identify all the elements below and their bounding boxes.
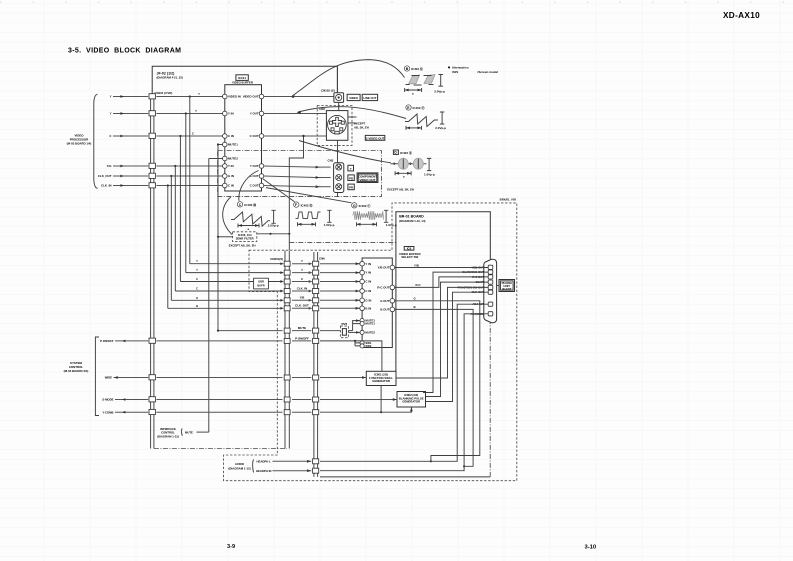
dashed box s-video section	[317, 106, 352, 146]
box IC103 filter (dashed)	[233, 232, 257, 242]
svg-text:IC402 Ⓣ: IC402 Ⓣ	[359, 203, 371, 208]
wire Y out row	[395, 267, 489, 269]
svg-text:SW2: SW2	[365, 344, 372, 348]
svg-text:SELECT SW: SELECT SW	[401, 255, 418, 259]
svg-text:1.0Vp-p: 1.0Vp-p	[324, 223, 335, 227]
bus vertical MUTE	[208, 159, 210, 433]
label box Y	[348, 165, 354, 171]
jack VIDEO out	[334, 93, 344, 103]
svg-text:PR: PR	[349, 186, 353, 190]
waveform fig G	[352, 203, 397, 228]
pin BLK/T	[488, 280, 493, 284]
label box PB	[348, 175, 354, 181]
svg-text:GENERATOR: GENERATOR	[372, 379, 390, 383]
svg-text:Y: Y	[196, 268, 198, 272]
waveform fig D (IC402 c out)	[391, 150, 436, 179]
wires: cable to IC101 video buffer	[156, 96, 222, 98]
wire s-video right stubs	[348, 116, 357, 118]
svg-text:(B-02)T: (B-02)T	[502, 287, 512, 291]
svg-text:C IN: C IN	[228, 134, 234, 138]
junction dots and drop wires to lower section	[189, 95, 191, 97]
svg-text:P-ON/OFF: P-ON/OFF	[295, 336, 309, 340]
wire gnd bottom	[320, 476, 490, 478]
svg-text:GBR: GBR	[258, 280, 264, 284]
svg-text:B: B	[196, 304, 198, 308]
label box to CRT unit	[499, 280, 515, 292]
svg-text:EXCEPT AB, SK, EH: EXCEPT AB, SK, EH	[229, 243, 256, 247]
pin FUNCTION SW OUT	[488, 285, 493, 289]
svg-text:Y OUT: Y OUT	[250, 112, 259, 116]
svg-text:VIDEO IN: VIDEO IN	[228, 95, 241, 99]
svg-text:IC402 Ⓡ: IC402 Ⓡ	[301, 202, 313, 207]
svg-text:IC101: IC101	[238, 76, 246, 80]
svg-text:XD-AX10: XD-AX10	[723, 11, 760, 20]
svg-text:CN201(S): CN201(S)	[270, 257, 283, 261]
pin R-C OUT	[488, 275, 493, 279]
wire R-C out	[395, 277, 489, 288]
svg-text:CLK_OUT: CLK_OUT	[295, 304, 309, 308]
wire C out to s-video	[264, 135, 327, 137]
svg-text:✱ Attenuation: ✱ Attenuation	[448, 65, 469, 69]
waveform fig E (IC402 y out)	[405, 105, 446, 130]
svg-text:HEADPH L: HEADPH L	[257, 460, 272, 464]
IC6 right pins	[390, 265, 395, 270]
IC6 mute/sw pins	[360, 319, 364, 323]
leader arrow to fig E	[298, 107, 406, 119]
wire filter left	[218, 236, 233, 238]
svg-text:CN6: CN6	[319, 257, 325, 261]
svg-text:IC402 Ⓜ: IC402 Ⓜ	[244, 202, 256, 207]
svg-text:2.0Vp-p: 2.0Vp-p	[435, 126, 446, 130]
svg-text:S VIDEO OUT: S VIDEO OUT	[366, 136, 385, 140]
svg-text:G IN: G IN	[365, 298, 371, 302]
wire blk out	[426, 292, 489, 401]
wire VIDEO out to jack	[264, 96, 334, 98]
svg-text:Y IN: Y IN	[228, 112, 234, 116]
label box PR	[348, 184, 354, 190]
bracket: video processor source	[94, 94, 98, 188]
board BR-01 dashed boundary	[224, 203, 517, 481]
wire jack to s-video	[338, 102, 340, 110]
svg-text:MUTE1: MUTE1	[228, 143, 238, 147]
svg-text:C: C	[196, 277, 198, 281]
leader to fig F	[263, 179, 295, 202]
block IC101 video buffer	[225, 85, 262, 191]
svg-text:WIDE: WIDE	[105, 376, 112, 380]
svg-text:Y/B: Y/B	[414, 263, 419, 267]
wire B out loop	[395, 309, 474, 466]
svg-text:S-MODE: S-MODE	[102, 398, 113, 402]
wire G out loop	[395, 301, 480, 462]
svg-text:1.0Vp-p: 1.0Vp-p	[386, 223, 397, 227]
connector S-video 4pin	[326, 111, 348, 141]
wire s-mode to IC802	[320, 399, 397, 401]
svg-text:3-5. VIDEO BLOCK DIAGRAM: 3-5. VIDEO BLOCK DIAGRAM	[68, 48, 181, 55]
wire blk/t	[426, 282, 489, 396]
waveform fig B (IC402 video out)	[404, 66, 445, 96]
label box S VIDEO OUT	[365, 135, 385, 140]
wire function sw out	[396, 287, 488, 378]
svg-text:C IN: C IN	[228, 184, 234, 188]
svg-text:Y IN: Y IN	[365, 262, 371, 266]
label box LINE OUT	[362, 94, 377, 100]
svg-text:Y IN: Y IN	[365, 271, 371, 275]
wire adj in	[320, 304, 488, 461]
wire wide to IC801	[320, 377, 366, 379]
svg-text:(DIAGRAM 1-12): (DIAGRAM 1-12)	[228, 466, 250, 470]
svg-text:Y: Y	[195, 109, 197, 113]
svg-text:C OUT: C OUT	[250, 184, 259, 188]
svg-text:VIDEO OUT: VIDEO OUT	[360, 178, 376, 182]
connector CN jack to unit	[484, 259, 497, 323]
svg-text:Y: Y	[350, 167, 352, 171]
svg-text:Y IN: Y IN	[228, 164, 234, 168]
pin ADJ IN/T	[488, 302, 493, 306]
label box COMPONENT VIDEO OUT	[357, 173, 378, 183]
svg-text:Y/B OUT: Y/B OUT	[378, 266, 390, 270]
IC101 label box	[236, 75, 248, 81]
svg-text:MUTE2: MUTE2	[228, 157, 238, 161]
generator box IC802	[397, 392, 426, 408]
svg-text:Y/B: Y/B	[300, 296, 305, 300]
svg-text:G OUT: G OUT	[380, 299, 389, 303]
svg-text:1.0Vp-p: 1.0Vp-p	[424, 173, 435, 177]
pin BLANKING OUT	[488, 270, 493, 274]
svg-text:F: F	[295, 203, 297, 207]
svg-text:Y OUT: Y OUT	[250, 164, 259, 168]
wire p-on/off to IC801	[355, 341, 382, 371]
svg-text:2.0Vp-p: 2.0Vp-p	[268, 224, 279, 228]
svg-text:IN/S: IN/S	[452, 70, 458, 74]
wire IC801 to row	[380, 386, 382, 413]
svg-text:IC402 Ⓢ: IC402 Ⓢ	[400, 150, 412, 155]
cable CN6 verticals	[313, 252, 315, 477]
svg-text:BRX/01_V05: BRX/01_V05	[500, 198, 517, 202]
pin BLK OUT	[488, 290, 493, 294]
svg-text:BR-01 BOARD: BR-01 BOARD	[399, 215, 424, 219]
dash-dot region component video	[218, 151, 382, 197]
dash-dot link	[289, 241, 396, 243]
svg-text:P-ON/OFF: P-ON/OFF	[100, 339, 114, 343]
svg-text:C: C	[196, 287, 198, 291]
wire MUTE1 stub	[218, 144, 223, 146]
svg-text:EXCEPT AB, SK, EH: EXCEPT AB, SK, EH	[387, 188, 414, 192]
svg-text:C IN: C IN	[365, 289, 371, 293]
svg-text:CN3: CN3	[328, 159, 334, 163]
svg-text:VIDEO: VIDEO	[349, 96, 359, 100]
wire p-on/off to sw pins	[320, 341, 360, 346]
svg-text:3-9: 3-9	[227, 544, 235, 550]
wire mute row to pins	[320, 330, 340, 332]
svg-text:VIDEO BUFFER: VIDEO BUFFER	[232, 81, 253, 85]
wire s-video to component bus	[337, 140, 339, 163]
svg-text:Y: Y	[196, 259, 198, 263]
svg-text:Y: Y	[198, 92, 200, 96]
bracket system control	[95, 337, 99, 416]
svg-text:CLK_IN: CLK_IN	[101, 184, 111, 188]
waveform fig F	[294, 202, 335, 227]
svg-text:Y-COMB: Y-COMB	[102, 410, 113, 414]
svg-text:HEADPH IN: HEADPH IN	[256, 469, 271, 473]
cable CN201 verticals	[284, 251, 286, 449]
pin ADJ(GND)	[488, 312, 493, 316]
IC module label box	[404, 247, 414, 251]
svg-text:IC6: IC6	[407, 247, 412, 251]
svg-text:BUFR: BUFR	[257, 284, 264, 288]
svg-text:B IN: B IN	[365, 306, 371, 310]
wire y-comb to IC802	[320, 407, 411, 412]
label box VIDEO	[347, 94, 360, 100]
arrowheads into cables	[280, 262, 284, 265]
wire blanking out	[423, 272, 488, 392]
wire riser to component section	[289, 136, 303, 250]
waveform fig C	[231, 202, 279, 231]
svg-text:3DNR FILTER: 3DNR FILTER	[236, 237, 254, 241]
svg-text:C OUT: C OUT	[250, 134, 259, 138]
jack component video 3pin	[334, 163, 344, 193]
svg-text:CLK_IN: CLK_IN	[297, 286, 307, 290]
inner frame BR-01	[396, 212, 490, 371]
svg-text:Y: Y	[301, 268, 303, 272]
svg-text:MUTE: MUTE	[298, 326, 306, 330]
row wires lower section	[292, 263, 311, 265]
svg-text:Y/G: Y/G	[107, 164, 113, 168]
pin Y(B) OUT	[488, 265, 493, 269]
svg-text:C IN: C IN	[365, 280, 371, 284]
svg-text:C: C	[192, 132, 194, 136]
svg-text:/Screen model: /Screen model	[478, 70, 499, 74]
leader to fig C	[239, 171, 259, 201]
wire jack top stub	[336, 66, 338, 93]
svg-text:(M-03 BOARD 3/4): (M-03 BOARD 3/4)	[64, 369, 89, 373]
svg-text:(DIAGRAM 1-13): (DIAGRAM 1-13)	[157, 434, 179, 438]
generator box IC801	[366, 371, 396, 385]
svg-text:RV6: RV6	[342, 322, 348, 326]
svg-text:G: G	[353, 204, 356, 208]
svg-text:CN101 (CVD): CN101 (CVD)	[155, 91, 173, 95]
wire Y out to s-video	[264, 113, 327, 115]
svg-text:GENERATOR: GENERATOR	[402, 400, 420, 404]
IC101 right pins	[259, 94, 264, 99]
svg-text:IC402 Ⓤ: IC402 Ⓤ	[411, 66, 423, 71]
svg-text:MUTE: MUTE	[185, 430, 193, 434]
cable CN6 boxes	[313, 261, 319, 266]
svg-text:G: G	[196, 296, 198, 300]
svg-text:2.0Vp-p: 2.0Vp-p	[434, 89, 445, 93]
IC101 left pins	[223, 94, 228, 99]
box GBR buffer	[254, 278, 269, 289]
svg-text:MUTE2: MUTE2	[365, 330, 375, 334]
cable: left flat cable verticals	[150, 94, 152, 449]
svg-text:AB, SK, EH: AB, SK, EH	[354, 126, 369, 130]
block IC6 video buffer select sw	[362, 258, 392, 348]
leader arc to filter	[223, 197, 232, 235]
svg-text:B: B	[414, 305, 416, 309]
board JF-02 outline	[152, 66, 337, 93]
svg-text:B OUT: B OUT	[380, 308, 389, 312]
leader to fig D	[299, 141, 391, 163]
cable connector boxes (left cable)	[149, 94, 155, 99]
svg-text:LINE OUT: LINE OUT	[363, 96, 376, 100]
svg-text:Y: Y	[110, 95, 112, 99]
svg-text:Y: Y	[110, 112, 112, 116]
svg-text:MUTE1: MUTE1	[365, 322, 375, 326]
svg-text:(DIAGRAM 1-10, 14): (DIAGRAM 1-10, 14)	[399, 219, 425, 223]
svg-text:IC402 Ⓥ: IC402 Ⓥ	[413, 105, 425, 110]
wire adj gnd	[320, 314, 488, 471]
svg-text:CN102 (S): CN102 (S)	[321, 88, 335, 92]
svg-text:(DIAGRAM 4-21, 22): (DIAGRAM 4-21, 22)	[157, 75, 183, 79]
IC6 left pins	[360, 261, 365, 266]
svg-text:3-10: 3-10	[585, 545, 597, 551]
wires component outputs	[264, 166, 316, 167]
svg-text:G IN: G IN	[228, 174, 234, 178]
wire filter right	[257, 233, 290, 235]
bus vertical to SW filter	[217, 145, 219, 331]
svg-text:PB: PB	[349, 176, 353, 180]
svg-text:VIDEO OUT: VIDEO OUT	[243, 95, 259, 99]
svg-text:Y: Y	[301, 259, 303, 263]
leader to fig G	[266, 188, 352, 203]
wire mute row start	[218, 330, 283, 332]
svg-text:R-C OUT: R-C OUT	[377, 286, 389, 290]
svg-text:CLK_OUT: CLK_OUT	[98, 174, 112, 178]
cable CN201 boxes	[284, 261, 290, 266]
wire MUTE2 stub	[209, 158, 223, 160]
svg-text:(M-03 BOARD 1/4): (M-03 BOARD 1/4)	[67, 141, 92, 145]
leader arrow to fig B	[292, 60, 404, 96]
dash-dot shield link	[154, 448, 287, 450]
